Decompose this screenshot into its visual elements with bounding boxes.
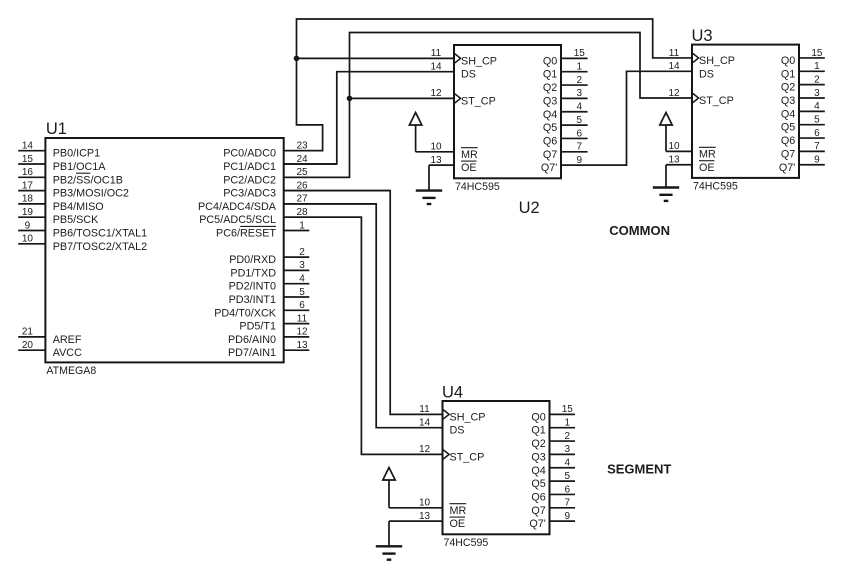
svg-text:Q0: Q0 (531, 411, 545, 423)
svg-text:PC5/ADC5/SCL: PC5/ADC5/SCL (199, 214, 276, 226)
svg-text:DS: DS (699, 68, 714, 80)
svg-text:11: 11 (297, 313, 308, 324)
svg-text:17: 17 (22, 180, 34, 191)
svg-text:7: 7 (814, 141, 820, 152)
svg-text:PB3/MOSI/OC2: PB3/MOSI/OC2 (53, 188, 129, 200)
svg-text:PB5/SCK: PB5/SCK (53, 214, 99, 226)
svg-text:12: 12 (296, 327, 308, 338)
svg-text:9: 9 (814, 155, 820, 166)
svg-text:U4: U4 (442, 384, 463, 402)
svg-text:ST_CP: ST_CP (699, 95, 734, 107)
svg-text:15: 15 (811, 48, 823, 59)
svg-text:PD6/AIN0: PD6/AIN0 (228, 334, 276, 346)
svg-text:OE: OE (699, 162, 715, 174)
svg-text:U1: U1 (46, 120, 67, 138)
svg-text:19: 19 (22, 207, 34, 218)
svg-text:2: 2 (564, 431, 570, 442)
svg-text:AREF: AREF (53, 334, 82, 346)
svg-text:6: 6 (814, 128, 820, 139)
svg-text:12: 12 (430, 88, 442, 99)
svg-text:PC0/ADC0: PC0/ADC0 (223, 148, 276, 160)
svg-text:14: 14 (668, 61, 680, 72)
svg-text:SH_CP: SH_CP (450, 411, 486, 423)
svg-text:ST_CP: ST_CP (450, 451, 485, 463)
svg-text:2: 2 (299, 247, 305, 258)
svg-text:PC2/ADC2: PC2/ADC2 (223, 174, 276, 186)
svg-text:PB4/MISO: PB4/MISO (53, 201, 104, 213)
svg-text:Q7': Q7' (779, 162, 795, 174)
svg-text:3: 3 (577, 88, 583, 99)
svg-text:14: 14 (22, 141, 34, 152)
svg-text:ST_CP: ST_CP (461, 95, 496, 107)
svg-text:MR: MR (450, 505, 467, 517)
svg-text:Q5: Q5 (543, 122, 557, 134)
svg-text:9: 9 (564, 511, 570, 522)
svg-text:U3: U3 (692, 27, 713, 45)
svg-text:Q7': Q7' (529, 518, 545, 530)
svg-text:6: 6 (299, 300, 305, 311)
svg-text:10: 10 (22, 234, 34, 245)
svg-text:7: 7 (564, 498, 570, 509)
svg-text:1: 1 (299, 220, 305, 231)
svg-text:PC1/ADC1: PC1/ADC1 (223, 161, 276, 173)
svg-text:Q5: Q5 (531, 478, 545, 490)
svg-text:Q6: Q6 (781, 135, 795, 147)
svg-text:OE: OE (450, 518, 466, 530)
svg-text:13: 13 (419, 511, 431, 522)
svg-text:3: 3 (814, 88, 820, 99)
svg-text:4: 4 (814, 101, 820, 112)
svg-text:21: 21 (22, 327, 34, 338)
svg-text:PB7/TOSC2/XTAL2: PB7/TOSC2/XTAL2 (53, 241, 147, 253)
svg-text:16: 16 (22, 167, 34, 178)
svg-text:PC6/RESET: PC6/RESET (216, 228, 276, 240)
svg-text:SH_CP: SH_CP (461, 55, 497, 67)
svg-text:Q2: Q2 (543, 82, 557, 94)
svg-text:OE: OE (461, 162, 477, 174)
svg-text:2: 2 (577, 75, 583, 86)
svg-text:74HC595: 74HC595 (693, 181, 738, 193)
svg-text:PD2/INT0: PD2/INT0 (229, 281, 276, 293)
svg-text:PB6/TOSC1/XTAL1: PB6/TOSC1/XTAL1 (53, 228, 147, 240)
svg-text:SEGMENT: SEGMENT (607, 462, 671, 477)
svg-text:7: 7 (577, 142, 583, 153)
svg-text:PC3/ADC3: PC3/ADC3 (223, 188, 276, 200)
svg-text:Q4: Q4 (543, 109, 557, 121)
svg-text:5: 5 (577, 115, 583, 126)
svg-text:Q3: Q3 (781, 95, 795, 107)
svg-text:Q7: Q7 (531, 505, 545, 517)
svg-text:PB2/SS/OC1B: PB2/SS/OC1B (53, 174, 123, 186)
svg-text:PD7/AIN1: PD7/AIN1 (228, 347, 276, 359)
svg-text:5: 5 (814, 115, 820, 126)
svg-text:1: 1 (577, 62, 583, 73)
svg-text:DS: DS (450, 425, 465, 437)
svg-text:Q3: Q3 (531, 451, 545, 463)
svg-text:Q1: Q1 (531, 425, 545, 437)
svg-text:9: 9 (25, 220, 31, 231)
svg-text:1: 1 (564, 418, 570, 429)
svg-text:ATMEGA8: ATMEGA8 (46, 365, 96, 377)
svg-text:PD3/INT1: PD3/INT1 (229, 294, 276, 306)
svg-text:4: 4 (299, 274, 305, 285)
svg-text:PB0/ICP1: PB0/ICP1 (53, 148, 100, 160)
svg-text:3: 3 (564, 444, 570, 455)
svg-text:PD5/T1: PD5/T1 (239, 321, 276, 333)
svg-text:5: 5 (564, 471, 570, 482)
svg-text:Q7: Q7 (543, 149, 557, 161)
svg-text:15: 15 (574, 48, 586, 59)
svg-text:DS: DS (461, 69, 476, 81)
svg-text:4: 4 (577, 102, 583, 113)
svg-text:6: 6 (564, 484, 570, 495)
svg-text:11: 11 (669, 48, 680, 59)
svg-text:PD1/TXD: PD1/TXD (230, 267, 276, 279)
svg-text:U2: U2 (519, 199, 540, 217)
svg-text:18: 18 (22, 194, 34, 205)
svg-text:Q0: Q0 (543, 55, 557, 67)
svg-text:74HC595: 74HC595 (444, 537, 489, 549)
svg-text:74HC595: 74HC595 (455, 181, 500, 193)
svg-text:3: 3 (299, 260, 305, 271)
svg-text:Q1: Q1 (781, 68, 795, 80)
svg-text:6: 6 (577, 128, 583, 139)
svg-text:Q2: Q2 (531, 438, 545, 450)
svg-text:PC4/ADC4/SDA: PC4/ADC4/SDA (198, 201, 277, 213)
svg-text:MR: MR (461, 149, 478, 161)
svg-text:Q6: Q6 (543, 135, 557, 147)
svg-text:Q0: Q0 (781, 55, 795, 67)
svg-text:PD4/T0/XCK: PD4/T0/XCK (214, 307, 277, 319)
svg-text:15: 15 (562, 404, 574, 415)
svg-text:Q1: Q1 (543, 69, 557, 81)
svg-text:Q3: Q3 (543, 95, 557, 107)
svg-text:PB1/OC1A: PB1/OC1A (53, 161, 107, 173)
svg-text:15: 15 (22, 154, 34, 165)
svg-text:Q7: Q7 (781, 148, 795, 160)
svg-text:SH_CP: SH_CP (699, 55, 735, 67)
svg-text:2: 2 (814, 74, 820, 85)
svg-text:Q5: Q5 (781, 122, 795, 134)
svg-text:Q4: Q4 (531, 465, 545, 477)
svg-text:13: 13 (296, 340, 308, 351)
svg-text:9: 9 (577, 155, 583, 166)
svg-text:PD0/RXD: PD0/RXD (229, 254, 276, 266)
svg-text:20: 20 (22, 340, 34, 351)
svg-text:4: 4 (564, 458, 570, 469)
svg-text:Q6: Q6 (531, 491, 545, 503)
svg-text:COMMON: COMMON (609, 223, 670, 238)
svg-text:Q4: Q4 (781, 108, 795, 120)
svg-text:AVCC: AVCC (53, 347, 82, 359)
svg-text:5: 5 (299, 287, 305, 298)
svg-text:Q7': Q7' (541, 162, 557, 174)
svg-text:1: 1 (814, 61, 820, 72)
svg-text:Q2: Q2 (781, 82, 795, 94)
svg-text:MR: MR (699, 148, 716, 160)
